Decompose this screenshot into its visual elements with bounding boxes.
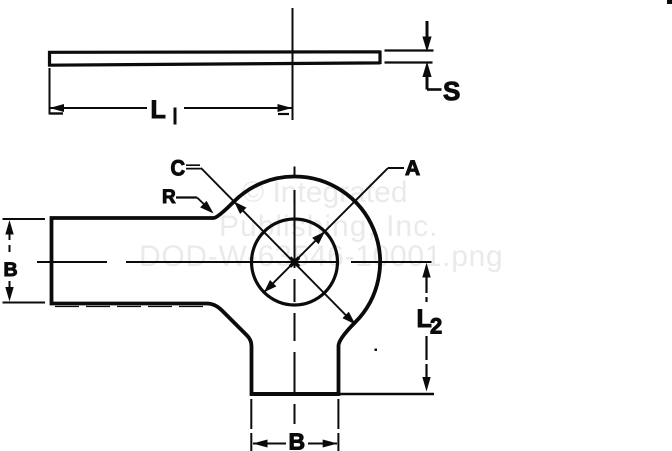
tick below L1 right arrow	[278, 113, 289, 115]
dimension L2 line upper	[425, 276, 427, 302]
dimension S down arrow	[422, 37, 431, 53]
svg-text:2: 2	[430, 314, 442, 339]
watermark line 2	[219, 210, 438, 244]
wire: top vertical centerline extension	[292, 8, 294, 120]
A arrow SW at inner circle	[264, 280, 276, 292]
wire: L1 left extension line	[49, 68, 51, 115]
svg-text:R: R	[162, 187, 176, 208]
wire: B left top extension	[3, 218, 46, 220]
leader R horizontal	[176, 196, 197, 198]
R arrow at fillet	[200, 201, 213, 214]
arm bottom edge shadow dashes	[55, 306, 207, 308]
svg-text:S: S	[443, 76, 460, 106]
svg-text:L: L	[151, 96, 166, 124]
node center crossing	[290, 258, 299, 267]
dimension S vertical line lower	[426, 75, 429, 90]
dimension S leader horizontal	[427, 88, 442, 91]
hole: inner circle	[252, 219, 338, 305]
leg bottom edge thick	[251, 392, 340, 396]
leader C diagonal	[201, 168, 355, 325]
dimension S vertical line upper	[426, 21, 429, 39]
dimension L1 line left part	[50, 107, 148, 109]
svg-text:C: C	[171, 157, 186, 181]
wire: bottom B right extension line	[337, 399, 339, 451]
horizontal centerline	[37, 261, 432, 263]
dimension L2 down arrow	[422, 377, 430, 392]
wire: S top extension line	[385, 49, 434, 51]
dimension B left up arrow	[5, 220, 13, 235]
dimension S up arrow	[422, 62, 431, 78]
dimension B bottom line right	[308, 443, 337, 445]
vertical centerline	[294, 167, 296, 425]
dimension B bottom right arrow	[323, 440, 338, 448]
speck near right neck	[375, 349, 378, 352]
dimension B left down arrow	[5, 287, 13, 302]
dimension L2 line lower	[425, 336, 427, 378]
part outline (front view)	[52, 176, 381, 394]
dimension L2 up arrow	[422, 263, 430, 278]
leader A horizontal	[388, 167, 404, 169]
bar outline (side view)	[49, 51, 381, 67]
dimension L1 right arrow	[278, 104, 293, 112]
label L1 subscript stroke	[174, 108, 177, 125]
watermark line 1	[242, 176, 408, 210]
C arrow SE at outer circle	[342, 312, 355, 325]
wire: leg bottom edge extension right	[340, 393, 434, 395]
wire: bottom B left extension line	[250, 399, 252, 451]
leader C horizontal	[186, 165, 202, 168]
svg-text:B: B	[289, 429, 306, 451]
dimension B left line upper	[9, 233, 11, 253]
leader R diagonal	[197, 198, 208, 209]
dimension B bottom line left	[253, 443, 286, 445]
dimension L1 left arrow	[50, 104, 65, 112]
C arrow NW at outer circle	[234, 202, 247, 215]
tick below L1 left arrow	[50, 112, 63, 114]
dimension B left line lower	[9, 281, 11, 292]
A arrow NE at inner circle	[312, 232, 325, 245]
svg-text:A: A	[405, 157, 420, 180]
dimension L1 line right part	[184, 107, 293, 109]
svg-text:B: B	[4, 259, 18, 281]
wire: S bottom extension line	[385, 61, 433, 63]
leader A diagonal	[264, 168, 388, 292]
dimension B bottom left arrow	[253, 440, 268, 448]
watermark line 3	[139, 240, 503, 274]
corner artifact dot	[667, 0, 672, 4]
wire: B left bottom extension	[3, 302, 46, 304]
